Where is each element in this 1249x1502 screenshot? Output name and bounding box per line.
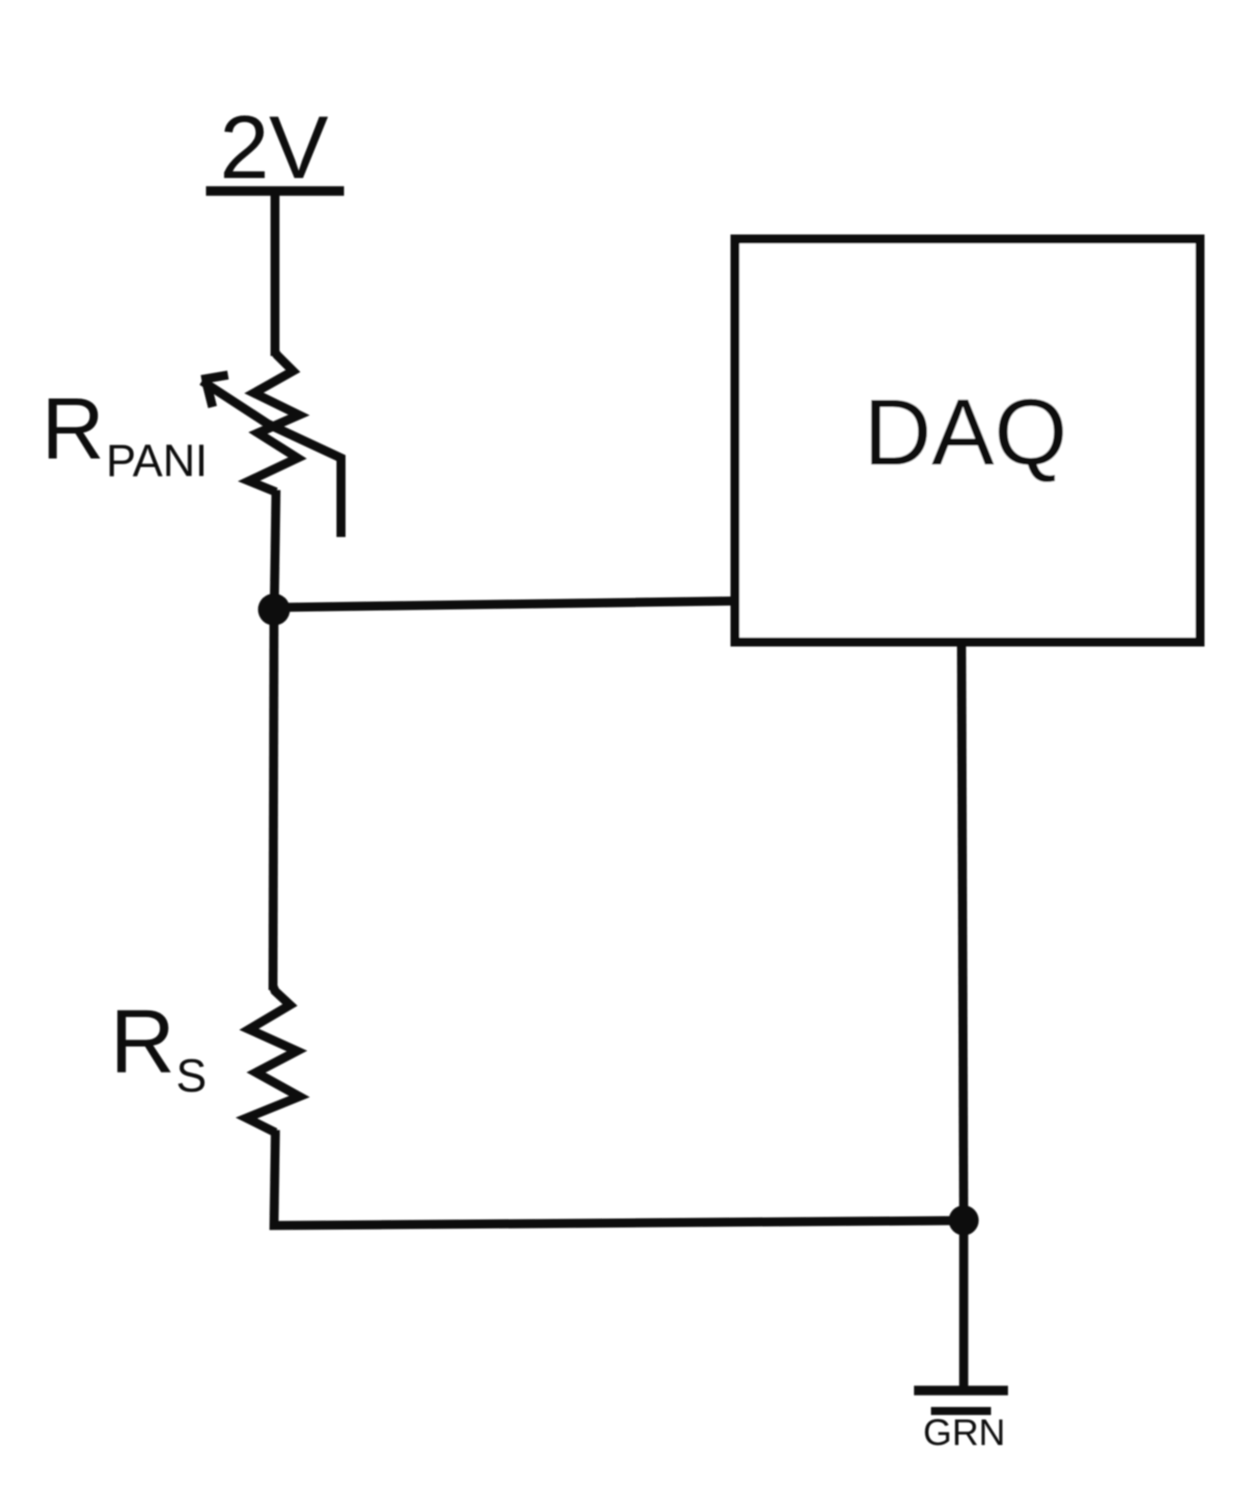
svg-text:S: S: [176, 1050, 207, 1102]
svg-text:R: R: [110, 992, 175, 1092]
svg-text:DAQ: DAQ: [864, 380, 1068, 485]
svg-text:PANI: PANI: [106, 435, 208, 486]
svg-text:2V: 2V: [220, 97, 329, 197]
svg-text:R: R: [42, 381, 105, 478]
svg-text:GRN: GRN: [923, 1412, 1005, 1453]
